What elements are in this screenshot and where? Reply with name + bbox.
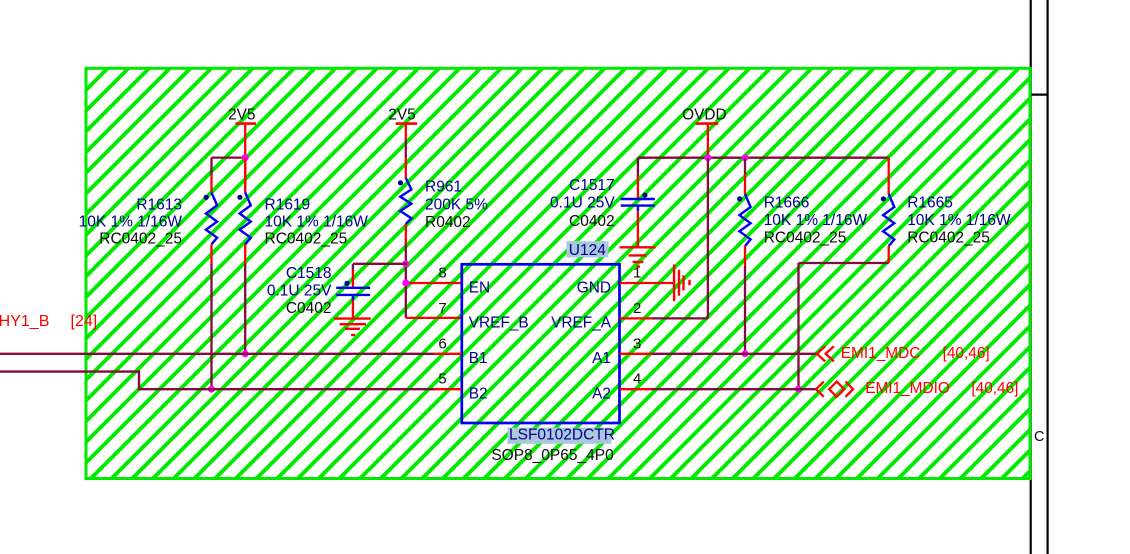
port symbol EMI1_MDIO (bidirectional) <box>816 382 853 397</box>
node junction R1665/A2 <box>795 386 802 393</box>
svg-text:SOP8_0P65_4P0: SOP8_0P65_4P0 <box>491 447 614 464</box>
wire R1619 bottom to B1 net <box>244 264 246 354</box>
svg-text:5: 5 <box>438 371 446 388</box>
node junction R1613/B2 wire <box>208 386 215 393</box>
sheet zone letter C <box>1034 429 1044 445</box>
svg-text:LSF0102DCTR: LSF0102DCTR <box>509 427 615 444</box>
svg-text:0.1U 25V: 0.1U 25V <box>550 195 615 212</box>
pin stub R961 top <box>405 158 407 179</box>
pin name VREF_A <box>551 315 612 332</box>
label C1518 refdes <box>286 265 332 282</box>
sheet border line (inner) <box>1030 0 1032 554</box>
node junction OVDD <box>704 154 711 161</box>
svg-text:8: 8 <box>438 265 446 282</box>
resistor R1665 symbol <box>881 194 894 246</box>
label R1619 value <box>265 214 369 231</box>
pin stub R1666 top <box>744 174 746 194</box>
port symbol EMI1_MDC (input) <box>817 346 834 361</box>
node junction 2V5/R1619 <box>242 154 249 161</box>
wire pin 8 (EN) <box>406 282 462 284</box>
svg-text:C1517: C1517 <box>569 177 615 194</box>
svg-text:0.1U 25V: 0.1U 25V <box>267 283 332 300</box>
pin name GND <box>577 279 611 296</box>
svg-text:U124: U124 <box>569 242 606 259</box>
label U124 part number <box>508 427 615 444</box>
svg-text:2V5: 2V5 <box>228 106 255 123</box>
label C1517 refdes <box>569 177 615 194</box>
wire EN node to C1518 <box>353 263 407 265</box>
wire OVDD down to VREF_A <box>707 158 709 319</box>
pin name VREF_B <box>469 315 529 332</box>
label R1613 refdes <box>136 197 182 214</box>
node junction R961/C1518 <box>402 260 409 267</box>
label U124 footprint <box>491 447 614 464</box>
pin stub R1613 bottom <box>210 244 212 264</box>
svg-text:R961: R961 <box>425 179 462 196</box>
ground symbol below C1517 <box>620 247 656 266</box>
svg-text:C1518: C1518 <box>286 265 332 282</box>
label R1666 footprint <box>764 230 847 247</box>
pin stub C1518 bottom <box>352 300 354 317</box>
label C1517 value <box>550 195 615 212</box>
net label EMI1_MDC pages <box>943 345 990 362</box>
svg-text:B2: B2 <box>469 386 488 403</box>
pin stub OVDD <box>707 125 709 158</box>
wire corner down to C1518 <box>352 264 354 270</box>
label R1613 footprint <box>99 230 182 247</box>
svg-text:7: 7 <box>438 300 446 317</box>
pin stub R1665 bottom <box>888 246 890 263</box>
svg-text:EMI1_MDC: EMI1_MDC <box>841 345 921 362</box>
wire VREF_A horizontal <box>652 317 708 319</box>
net label EMI1_MDIO <box>865 380 950 397</box>
pin stub 2V5 middle <box>405 125 407 140</box>
pin name A2 <box>592 386 611 403</box>
svg-text:R1619: R1619 <box>265 197 311 214</box>
label R1665 value <box>907 212 1011 229</box>
svg-text:R1666: R1666 <box>764 195 810 212</box>
pin number 8 <box>438 265 446 282</box>
pin stub C1517 bottom <box>637 211 639 247</box>
label R1619 refdes <box>265 197 311 214</box>
wire 2V5 to R961 <box>405 140 407 158</box>
svg-text:[40,46]: [40,46] <box>943 345 990 362</box>
pin stub pin 6 (B1) <box>434 353 462 355</box>
pin stub R1666 bottom <box>744 246 746 266</box>
svg-text:R1665: R1665 <box>907 195 953 212</box>
wire R961 bottom to EN node <box>405 244 407 264</box>
label U124 refdes <box>567 241 609 259</box>
pin stub pin 5 (B2) <box>434 388 462 390</box>
wire R1665 jog vertical <box>797 263 799 389</box>
wire junction to R1613 (horizontal) <box>212 156 246 158</box>
pin stub R1613 top <box>210 176 212 193</box>
svg-text:GND: GND <box>577 279 611 296</box>
capacitor C1517 symbol <box>621 193 655 212</box>
label C1518 value <box>267 283 332 300</box>
pin name EN <box>469 279 490 296</box>
pin number 1 <box>633 265 641 282</box>
capacitor C1518 symbol <box>336 281 370 301</box>
node junction R1666/A1 <box>742 350 749 357</box>
ground symbol below C1518 <box>334 319 371 335</box>
resistor R961 symbol <box>398 178 412 224</box>
svg-text:200K 5%: 200K 5% <box>425 196 488 213</box>
wire EN node down to pin7 corner <box>405 264 407 318</box>
svg-text:RC0402_25: RC0402_25 <box>907 230 990 247</box>
pin stub R1665 top <box>888 158 890 194</box>
svg-text:6: 6 <box>438 335 446 352</box>
node junction OVDD/R1666 <box>742 154 749 161</box>
pin number 7 <box>438 300 446 317</box>
svg-text:R0402: R0402 <box>425 214 471 231</box>
pin name A1 <box>592 350 611 367</box>
svg-text:RC0402_25: RC0402_25 <box>764 230 847 247</box>
svg-text:10K 1% 1/16W: 10K 1% 1/16W <box>79 214 183 231</box>
svg-text:R1613: R1613 <box>136 197 182 214</box>
wire pin 7 (VREF_B) <box>406 317 462 319</box>
label C1517 footprint <box>569 213 615 230</box>
power symbol 2V5 (middle) <box>388 106 417 123</box>
label R1613 value <box>79 214 183 231</box>
svg-text:3: 3 <box>633 335 641 352</box>
svg-text:VREF_B: VREF_B <box>469 315 529 332</box>
wire pin 4 (A2) <box>620 388 653 390</box>
svg-text:EN: EN <box>469 279 490 296</box>
net label EMI1_MDC <box>841 345 921 362</box>
svg-text:VREF_A: VREF_A <box>551 315 612 332</box>
wire R1613 bottom to B2 net <box>210 264 212 389</box>
sheet border line (outer) <box>1046 0 1048 554</box>
pin number 3 <box>633 335 641 352</box>
pin stub R1619 bottom <box>244 244 246 264</box>
svg-text:2V5: 2V5 <box>388 106 415 123</box>
svg-text:C0402: C0402 <box>569 213 615 230</box>
pin number 6 <box>438 335 446 352</box>
wire A2 to port EMI1_MDIO <box>652 388 816 390</box>
power symbol 2V5 (left) <box>228 106 256 123</box>
svg-text:A1: A1 <box>592 350 611 367</box>
svg-text:[24]: [24] <box>71 313 98 330</box>
svg-text:[40,46]: [40,46] <box>971 380 1018 397</box>
wire R1665 jog horizontal <box>799 262 889 264</box>
svg-text:A2: A2 <box>592 386 611 403</box>
label R961 value <box>425 196 488 213</box>
svg-text:4: 4 <box>633 371 641 388</box>
ground symbol at pin 1 <box>674 264 689 301</box>
pin name B1 <box>469 350 488 367</box>
wire pin 2 (VREF_A) <box>620 317 653 319</box>
hatched selection region <box>86 68 1030 478</box>
wire pin 1 (GND) <box>620 282 675 284</box>
node junction EN pin 8 <box>402 280 409 287</box>
pin name B2 <box>469 386 488 403</box>
wire OVDD to R1666 <box>744 158 746 175</box>
svg-text:B1: B1 <box>469 350 488 367</box>
wire down to R1613 <box>210 158 212 176</box>
pin number 4 <box>633 371 641 388</box>
net label PHY1_B page <box>71 313 98 330</box>
label R1666 value <box>764 212 868 229</box>
pin stub C1517 top <box>637 176 639 199</box>
svg-text:EMI1_MDIO: EMI1_MDIO <box>865 380 950 397</box>
wire OVDD rail to C1517 corner <box>637 158 639 176</box>
label R961 footprint <box>425 214 471 231</box>
svg-text:OVDD: OVDD <box>682 106 726 123</box>
net label EMI1_MDIO pages <box>971 380 1018 397</box>
label R1666 refdes <box>764 195 810 212</box>
wire B1 net from left edge <box>0 353 434 355</box>
svg-text:10K 1% 1/16W: 10K 1% 1/16W <box>907 212 1011 229</box>
svg-text:2: 2 <box>633 300 641 317</box>
pin stub C1518 top <box>352 270 354 288</box>
svg-text:C: C <box>1034 429 1044 445</box>
pin stub R1619 top <box>244 158 246 193</box>
wire OVDD horizontal rail <box>638 157 889 159</box>
wire A1 to port EMI1_MDC <box>652 353 817 355</box>
wire R1666 to A1 net <box>744 266 746 354</box>
net label PHY1_B <box>0 313 49 330</box>
power symbol OVDD <box>682 106 726 123</box>
svg-text:RC0402_25: RC0402_25 <box>265 230 348 247</box>
wire pin 3 (A1) <box>620 353 653 355</box>
svg-text:PHY1_B: PHY1_B <box>0 313 49 330</box>
label R961 refdes <box>425 179 462 196</box>
label R1619 footprint <box>265 230 348 247</box>
resistor R1619 symbol <box>237 193 251 245</box>
label C1518 footprint <box>286 300 332 317</box>
svg-text:10K 1% 1/16W: 10K 1% 1/16W <box>764 212 868 229</box>
resistor R1613 symbol <box>204 193 218 245</box>
pin number 2 <box>633 300 641 317</box>
node junction R1619/B1 wire <box>242 350 249 357</box>
pin stub R961 bottom <box>405 224 407 244</box>
label R1665 refdes <box>907 195 953 212</box>
pin number 5 <box>438 371 446 388</box>
svg-text:RC0402_25: RC0402_25 <box>99 230 182 247</box>
svg-text:10K 1% 1/16W: 10K 1% 1/16W <box>265 214 369 231</box>
resistor R1666 symbol <box>737 194 750 246</box>
svg-text:C0402: C0402 <box>286 300 332 317</box>
label R1665 footprint <box>907 230 990 247</box>
wire 2V5 to junction (red pin) <box>244 125 246 193</box>
wire B2 net from left edge <box>0 372 434 390</box>
sheet border zone tick <box>1031 93 1048 95</box>
IC U124 body <box>462 264 620 423</box>
